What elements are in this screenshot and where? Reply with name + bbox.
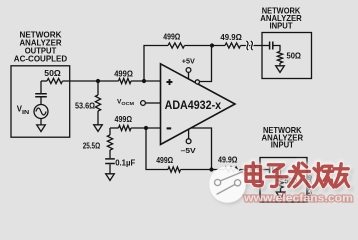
svg-text:50Ω: 50Ω	[44, 68, 61, 78]
svg-text:ADA4932-x: ADA4932-x	[165, 98, 222, 112]
svg-text:+5V: +5V	[182, 56, 196, 65]
svg-text:–5V: –5V	[181, 146, 197, 155]
svg-text:0.1µF: 0.1µF	[115, 157, 135, 167]
svg-text:53.6Ω: 53.6Ω	[75, 100, 95, 110]
svg-text:49.9Ω: 49.9Ω	[220, 32, 242, 42]
svg-text:INPUT: INPUT	[270, 20, 294, 30]
svg-text:50Ω: 50Ω	[287, 51, 302, 61]
svg-text:499Ω: 499Ω	[156, 155, 173, 165]
svg-text:INPUT: INPUT	[271, 140, 295, 150]
svg-text:www.elecfans.com: www.elecfans.com	[243, 193, 353, 205]
svg-text:499Ω: 499Ω	[163, 32, 180, 42]
svg-text:49.9Ω: 49.9Ω	[218, 154, 238, 164]
svg-text:499Ω: 499Ω	[115, 114, 133, 124]
svg-text:25.5Ω: 25.5Ω	[83, 140, 101, 150]
svg-text:AC-COUPLED: AC-COUPLED	[14, 53, 67, 63]
svg-text:499Ω: 499Ω	[114, 69, 133, 79]
